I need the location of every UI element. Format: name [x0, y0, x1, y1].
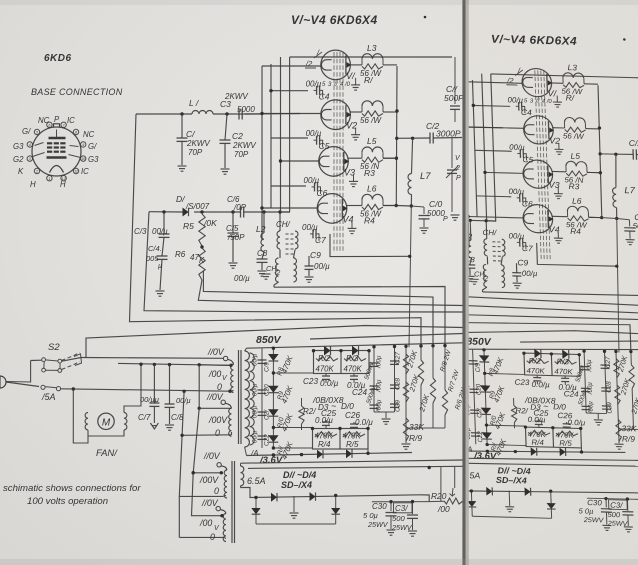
- svg-text:NC: NC: [83, 130, 95, 139]
- svg-text:0: 0: [215, 428, 220, 438]
- svg-text://0V: //0V: [207, 347, 225, 357]
- svg-text:00/µ: 00/µ: [152, 227, 168, 236]
- capacitor C1: [180, 112, 183, 115]
- svg-text://0V: //0V: [206, 392, 224, 402]
- svg-text:C4: C4: [319, 91, 330, 101]
- ground near tube V3: [349, 180, 358, 182]
- stray dot mark: [424, 16, 427, 19]
- svg-text:C28: C28: [395, 378, 402, 390]
- capacitor C15 150P: [231, 210, 234, 213]
- ground for R19: [402, 443, 411, 445]
- 100V tap wires: [229, 364, 232, 367]
- svg-text:/S/007: /S/007: [185, 202, 210, 211]
- svg-text://0V: //0V: [201, 498, 219, 508]
- svg-text:6KD6: 6KD6: [44, 53, 72, 64]
- plate load coil L6: [346, 205, 362, 207]
- svg-text:00/µ: 00/µ: [314, 262, 330, 271]
- svg-text:G/: G/: [22, 127, 31, 136]
- capacitor C16 series 10P: [240, 207, 242, 218]
- svg-text:00/µ: 00/µ: [252, 353, 259, 366]
- svg-text:C/3: C/3: [134, 227, 147, 236]
- AC plug: [0, 376, 6, 388]
- capacitor C17 0.01u: [153, 363, 156, 366]
- svg-text:schimatic shows connections fo: schimatic shows connections for: [3, 483, 141, 494]
- plate load resistor R2 56 1W: [362, 111, 383, 116]
- svg-text:G/: G/: [88, 142, 97, 151]
- svg-text:R/2: R/2: [318, 354, 331, 363]
- plate load coil L5: [348, 157, 363, 159]
- tube V3 6KD6: [319, 147, 349, 177]
- fuse 15A: [41, 385, 45, 389]
- wire bus B: [144, 212, 463, 312]
- rectifier cap column: [261, 348, 263, 448]
- svg-text:D// ~D/4: D// ~D/4: [283, 470, 316, 480]
- capacitor C18 0.01u: [168, 363, 171, 366]
- resistor box R14 R15 470K: [313, 429, 369, 450]
- photo vignette: [0, 0, 638, 5]
- wire 100V feed from left: [118, 363, 231, 365]
- V4 plate row extension: [396, 205, 411, 208]
- rectifier diode column D3-D6: [272, 348, 274, 448]
- svg-text:2KWV: 2KWV: [232, 141, 256, 150]
- capacitor C2: [225, 112, 228, 115]
- svg-text:FAN/: FAN/: [96, 448, 118, 459]
- svg-text:00/µ: 00/µ: [234, 274, 250, 283]
- capacitor C8: [262, 252, 264, 259]
- svg-text:8: 8: [75, 131, 77, 135]
- svg-text:C8: C8: [257, 249, 268, 258]
- capacitor column C27 C28 C29: [394, 347, 396, 413]
- transformer T1 core: [238, 350, 240, 444]
- svg-text:470K: 470K: [316, 365, 335, 374]
- wire C12 row: [397, 137, 430, 139]
- svg-text:/00µ: /00µ: [376, 355, 383, 369]
- svg-text:/50P: /50P: [227, 233, 245, 242]
- svg-text:D/0: D/0: [341, 402, 354, 411]
- svg-text:C27: C27: [395, 352, 402, 364]
- svg-text:H: H: [60, 180, 66, 189]
- T2 secondary 6.5A: [241, 466, 244, 486]
- svg-text:R2/: R2/: [303, 407, 316, 416]
- svg-text:C3: C3: [220, 99, 231, 109]
- svg-text:00/µμ: 00/µμ: [140, 395, 159, 404]
- svg-text:G3: G3: [13, 142, 24, 151]
- svg-text:C23: C23: [303, 377, 318, 386]
- svg-text:500: 500: [392, 514, 405, 523]
- ground for C2: [221, 168, 230, 170]
- wire 13.6V distribution: [248, 466, 463, 468]
- svg-text:00/µ: 00/µ: [252, 405, 259, 418]
- svg-text:R20: R20: [431, 491, 447, 501]
- tube V/ 6KD6: [321, 50, 351, 80]
- svg-text:00/µ: 00/µ: [252, 430, 259, 443]
- bleeder 270K column: [405, 346, 407, 443]
- svg-text:R/3: R/3: [346, 354, 359, 363]
- ground near tube V2: [351, 134, 360, 136]
- svg-text:L7: L7: [420, 171, 431, 182]
- wire bus A2: [130, 114, 422, 348]
- svg-text:0: 0: [214, 486, 219, 496]
- resistor box R12 R13 470K: [314, 351, 370, 374]
- svg-text:P: P: [54, 115, 60, 124]
- svg-text:C/7: C/7: [138, 413, 151, 422]
- svg-text:BASE CONNECTION: BASE CONNECTION: [31, 87, 123, 97]
- svg-text:C29: C29: [395, 400, 402, 412]
- svg-text:5 0µ: 5 0µ: [363, 511, 379, 520]
- svg-text:25WV: 25WV: [367, 520, 389, 529]
- svg-text:/00V: /00V: [199, 475, 219, 485]
- svg-text:0: 0: [217, 382, 222, 392]
- svg-text:P: P: [443, 216, 448, 223]
- grid row stubs: [262, 65, 321, 67]
- ground for C17: [150, 423, 158, 429]
- diodes on top wire: [324, 346, 331, 356]
- svg-text:K: K: [199, 256, 205, 265]
- svg-text:850V: 850V: [256, 334, 282, 346]
- svg-text:H: H: [30, 180, 36, 189]
- capacitor C31 500u 25WV: [394, 503, 413, 513]
- plate feed vertical: [409, 206, 411, 347]
- svg-text:P: P: [456, 175, 461, 182]
- plate load coil L4: [350, 111, 362, 113]
- svg-text:µ: µ: [158, 263, 162, 270]
- svg-text:/2: /2: [305, 59, 313, 68]
- svg-text:C9: C9: [310, 250, 321, 260]
- ground near variable capacitor: [451, 214, 460, 216]
- svg-text:9: 9: [82, 143, 84, 147]
- svg-text:R3: R3: [364, 168, 375, 178]
- svg-text:/0: /0: [344, 82, 351, 88]
- resistor R21: [299, 406, 304, 424]
- svg-text:C2: C2: [232, 131, 243, 141]
- svg-text:C/8: C/8: [171, 413, 184, 422]
- capacitor C3 series: [238, 109, 240, 120]
- T2 tap wires: [220, 471, 223, 474]
- svg-text:005: 005: [146, 254, 159, 263]
- inductor L7: [411, 137, 414, 140]
- T2 primary upper: [217, 463, 221, 467]
- inductor L2: [262, 210, 265, 213]
- inductor L1: [192, 111, 213, 114]
- capacitor C14 0.05u: [157, 255, 168, 257]
- svg-text:3: 3: [29, 157, 31, 161]
- secondary network top wire: [247, 343, 463, 348]
- svg-text:SD–/X4: SD–/X4: [281, 480, 312, 490]
- plate load resistor R4 56 1W: [362, 204, 383, 209]
- svg-text:L2: L2: [256, 224, 266, 234]
- tube V2 6KD6: [321, 100, 351, 130]
- ground for C9: [305, 276, 314, 278]
- svg-text:10: 10: [81, 157, 85, 161]
- fan motor FAN1: [72, 387, 75, 390]
- svg-text:C3/: C3/: [395, 504, 408, 513]
- svg-text:V/: V/: [346, 71, 356, 81]
- capacitor C13 0.01u: [162, 210, 165, 213]
- fuse line vertical to T2: [182, 390, 185, 393]
- svg-text:0.0/µ: 0.0/µ: [315, 416, 333, 425]
- svg-text:/0K: /0K: [203, 218, 217, 228]
- tube deck top wire: [290, 56, 452, 58]
- diode D1 1S1007: [183, 208, 189, 217]
- svg-text:5: 5: [36, 131, 38, 135]
- svg-text:/00µ: /00µ: [376, 379, 383, 393]
- capacitor C30 5.0u 25WV: [372, 501, 429, 503]
- T2 primary lower: [216, 506, 220, 510]
- svg-text:70P: 70P: [188, 148, 203, 157]
- svg-text:0.0/μ: 0.0/μ: [355, 418, 373, 427]
- 100V vertical to T2: [193, 408, 221, 473]
- ground for C18: [165, 424, 174, 426]
- svg-text:CH/: CH/: [276, 220, 291, 229]
- svg-text:/0P: /0P: [233, 203, 247, 212]
- plate load coil L3: [350, 64, 362, 66]
- svg-text:R5: R5: [183, 221, 194, 231]
- svg-text:2: 2: [455, 165, 460, 172]
- svg-text:3000P: 3000P: [436, 129, 461, 139]
- svg-text:2: 2: [35, 170, 38, 174]
- svg-text:/00µ: /00µ: [376, 399, 383, 413]
- svg-text:R/5: R/5: [346, 440, 359, 449]
- wire C7 cathode return: [330, 234, 411, 257]
- svg-text:L6: L6: [367, 184, 377, 194]
- svg-text:IC: IC: [81, 167, 89, 176]
- wire plug to fuse: [6, 361, 31, 383]
- plate load resistor R3 56 1W: [362, 157, 383, 162]
- svg-text:C20: C20: [264, 384, 271, 396]
- svg-text:C/0: C/0: [429, 199, 443, 209]
- svg-text:G3: G3: [88, 155, 99, 164]
- wire antenna feed horizontal: [136, 113, 192, 115]
- left page group: [0, 13, 468, 543]
- tube socket base diagram: [27, 122, 86, 181]
- svg-text:C/9: C/9: [264, 362, 271, 372]
- svg-text:/00: /00: [208, 369, 221, 379]
- svg-text:0.0/µ: 0.0/µ: [320, 379, 339, 388]
- svg-text:0: 0: [210, 532, 215, 542]
- ground for cap columns: [374, 411, 395, 413]
- svg-text:R6: R6: [175, 250, 186, 259]
- wire D1 row: [149, 211, 183, 213]
- tube V4 6KD6: [317, 194, 347, 224]
- ground for C1: [178, 165, 187, 167]
- plate bus vertical: [395, 66, 398, 206]
- tube deck left vertical wires: [261, 66, 263, 240]
- bleeder resistors on bus verticals: [418, 360, 423, 385]
- ground near tube V/: [351, 84, 360, 86]
- capacitors C25 C26 symbols: [325, 420, 327, 422]
- ground near tube V4: [348, 227, 357, 229]
- capacitor C10 5000P: [410, 204, 413, 207]
- svg-text:/00V: /00V: [208, 415, 228, 425]
- svg-text:IC: IC: [67, 116, 75, 125]
- svg-text:K: K: [18, 167, 24, 176]
- svg-text:R/9: R/9: [409, 433, 422, 443]
- rectifier bridge D11-D14: [241, 488, 421, 498]
- wire bus E2: [310, 334, 463, 340]
- transformer T2 core: [231, 461, 233, 543]
- capacitors C23 C24 under box: [325, 374, 327, 377]
- plate load resistor R/ 56 1W: [362, 64, 383, 69]
- resistor R5 10K: [200, 210, 203, 213]
- svg-text:C/4.: C/4.: [148, 244, 162, 253]
- svg-text:70P: 70P: [234, 150, 249, 159]
- svg-text:C/5: C/5: [226, 224, 239, 233]
- wire CH2 to bus: [274, 282, 279, 287]
- wire bus E: [86, 326, 463, 358]
- wire bus C: [198, 280, 462, 306]
- svg-text:C7: C7: [315, 235, 326, 245]
- svg-text:G2: G2: [13, 155, 24, 164]
- wire fuse to transformer 0 tap: [61, 389, 230, 391]
- grid bus vertical lines through tubes: [333, 52, 335, 252]
- T1 primary winding lower: [221, 400, 225, 404]
- ground for C14: [156, 290, 165, 292]
- svg-text:/00: /00: [437, 504, 450, 514]
- svg-text:5000: 5000: [237, 105, 255, 114]
- wire S2 to transformer 110V tap: [31, 359, 42, 361]
- svg-text:470K: 470K: [344, 365, 363, 374]
- svg-text:L /: L /: [189, 98, 200, 108]
- 13.6V secondary rail: [241, 460, 463, 463]
- svg-text:100 volts operation: 100 volts operation: [27, 496, 108, 507]
- ground for C15: [229, 262, 238, 264]
- svg-text:/5A: /5A: [41, 392, 56, 402]
- svg-text:33K: 33K: [409, 422, 424, 432]
- svg-text:R/4: R/4: [318, 440, 331, 449]
- svg-text:C30: C30: [372, 502, 387, 511]
- row wires to resistor boxes: [273, 372, 313, 374]
- svg-text:6.5A: 6.5A: [247, 476, 266, 486]
- svg-text:C24: C24: [352, 388, 367, 397]
- svg-text:L5: L5: [367, 136, 377, 146]
- svg-text:00/µ: 00/µ: [252, 383, 259, 396]
- T1 primary winding upper: [223, 356, 227, 360]
- wire bus A: [203, 271, 433, 348]
- electrolytic column 100u: [373, 347, 375, 412]
- svg-text:500P: 500P: [444, 93, 464, 103]
- resistor R6 47K: [200, 245, 203, 248]
- svg-text:4: 4: [29, 143, 31, 147]
- svg-text:/A: /A: [250, 449, 259, 458]
- svg-text:/00: /00: [199, 518, 212, 528]
- svg-text:L3: L3: [367, 43, 377, 53]
- resistor 33K R19: [403, 418, 408, 441]
- ground for C8: [258, 270, 267, 272]
- svg-text:M: M: [102, 417, 111, 428]
- 0 tap wires: [228, 390, 231, 393]
- ground for C10: [420, 227, 429, 229]
- svg-text://0V: //0V: [203, 451, 221, 461]
- 13.6V rail diodes: [245, 447, 247, 456]
- svg-text:NC: NC: [38, 116, 50, 125]
- wire bus D: [274, 287, 445, 348]
- svg-text:2KWV: 2KWV: [186, 139, 210, 148]
- svg-text:R4: R4: [364, 216, 375, 226]
- svg-text:S2: S2: [48, 342, 60, 353]
- variable capacitor: [451, 138, 453, 168]
- svg-text:C6: C6: [317, 188, 328, 198]
- right sheet duplicate of schematic: [201, 25, 638, 539]
- ground mid bridge: [293, 496, 295, 512]
- socket pin name labels: [13, 115, 99, 189]
- svg-text:11: 11: [74, 170, 78, 174]
- capacitor C12 3000P: [429, 133, 431, 144]
- T1 secondary winding: [245, 351, 250, 447]
- page edge shadow band: [462, 0, 465, 565]
- svg-text:1: 1: [48, 177, 50, 181]
- svg-text:56 /W: 56 /W: [360, 116, 382, 125]
- svg-text:V/~V4 6KD6X4: V/~V4 6KD6X4: [291, 13, 378, 27]
